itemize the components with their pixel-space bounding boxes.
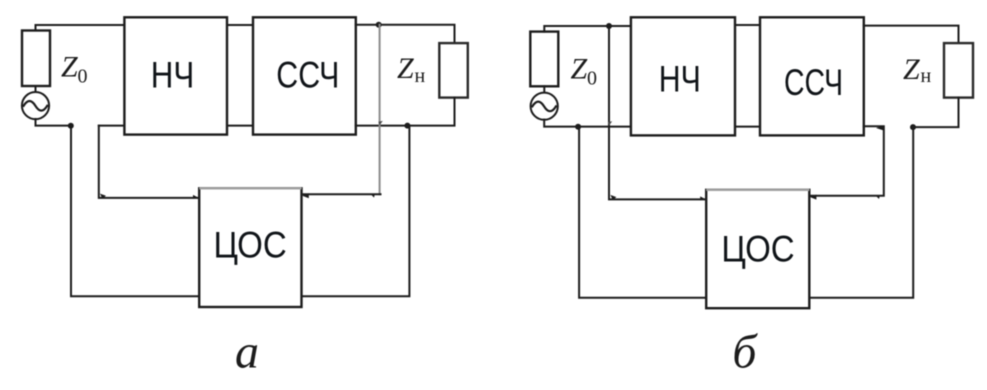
resistor Z0 (b): [530, 32, 558, 87]
junction dot bottom output node (a): [404, 123, 410, 129]
wire Z0 top to NCh input (b): [544, 26, 631, 32]
block SSCh (b): [760, 17, 864, 135]
wire SSCh output top to load (a): [356, 25, 455, 43]
block COS (a): [199, 188, 301, 307]
block NCh (b): [631, 17, 735, 135]
wire Z0 top to NCh input (a): [36, 25, 125, 31]
svg-text:н: н: [921, 65, 932, 87]
svg-text:ЦОС: ЦОС: [721, 229, 794, 270]
arrowhead at corner of input feedback (a): [100, 194, 106, 199]
svg-text:н: н: [415, 65, 426, 87]
arrow tick on feedback wire (a): [371, 195, 375, 198]
block NCh (a): [124, 17, 227, 134]
svg-text:б: б: [732, 326, 758, 379]
svg-text:0: 0: [587, 68, 597, 90]
wire NCh to SSCh bottom (b): [735, 126, 760, 128]
junction dot load bottom node (b): [910, 124, 916, 130]
wire source node down to COS bottom-left (a): [71, 126, 199, 297]
wire SSCh output stub to feedback (b): [809, 126, 884, 196]
wire NCh input tap (a): [99, 125, 125, 127]
wire NCh to SSCh top (a): [227, 24, 253, 26]
wire load bottom (a): [356, 98, 455, 126]
svg-text:Z: Z: [571, 53, 588, 86]
arrowhead toward SSCh on stub (b): [876, 126, 883, 131]
block COS (b): [706, 190, 809, 308]
sine symbol of source (b): [532, 102, 556, 112]
svg-text:ЦОС: ЦОС: [213, 224, 286, 265]
svg-text:ССЧ: ССЧ: [784, 62, 843, 103]
arrowhead into COS left (a): [193, 195, 199, 199]
wire Z0 bottom to source (a): [35, 86, 37, 92]
arrow tick on feedback wire (b): [876, 196, 880, 199]
wire bottom output node down to COS bottom-right (a): [302, 126, 410, 297]
wire Z0 bottom to source (b): [543, 86, 545, 93]
AC source G2 (b): [531, 93, 558, 120]
resistor Z0 (a): [22, 31, 50, 87]
arrowhead into COS right (b): [810, 195, 817, 200]
wire feedback from top input node down to COS left (b): [609, 26, 706, 199]
svg-text:а: а: [235, 326, 259, 379]
sine symbol of source (a): [24, 101, 48, 111]
wire load bottom to junction (b): [913, 98, 959, 128]
wire SSCh output top to load (b): [864, 26, 959, 43]
junction dot source node (a): [68, 123, 74, 129]
svg-text:Z: Z: [903, 53, 920, 86]
junction dot top input node (b): [606, 23, 612, 29]
svg-text:0: 0: [78, 66, 88, 88]
svg-text:Z: Z: [61, 51, 78, 84]
wire NCh to SSCh top (b): [735, 24, 760, 26]
arrow flare at crossing (a): [378, 121, 382, 126]
junction dot source node (b): [575, 124, 581, 130]
wire NCh to SSCh bottom (a): [227, 125, 253, 127]
wire source bottom to junction (a): [36, 119, 71, 126]
svg-text:Z: Z: [397, 52, 414, 85]
load resistor Zn (a): [439, 43, 468, 98]
arrowhead into COS left (b): [700, 196, 706, 200]
svg-text:НЧ: НЧ: [659, 58, 701, 99]
arrowhead at corner of input feedback (b): [610, 195, 616, 200]
load resistor Zn (b): [944, 43, 973, 98]
AC source G1 (a): [22, 92, 49, 119]
wire input tap down to COS left (a): [99, 126, 199, 198]
wire feedback from top output node down (a): [379, 25, 381, 194]
arrow flare at crossing (b): [608, 121, 612, 126]
svg-text:ССЧ: ССЧ: [276, 54, 339, 95]
COS top edge gray (b): [707, 189, 808, 191]
block SSCh (a): [253, 17, 356, 134]
wire load node down to COS bottom-right (b): [809, 127, 913, 298]
wire feedback into COS right side (a): [302, 193, 381, 195]
COS top edge gray (a): [200, 187, 300, 189]
junction dot top output node (a): [376, 22, 382, 28]
wire source node down to COS bottom-left (b): [579, 127, 706, 298]
wire source bottom to NCh input low (b): [544, 120, 631, 127]
svg-text:НЧ: НЧ: [151, 55, 195, 96]
arrowhead into COS right (a): [302, 193, 309, 198]
